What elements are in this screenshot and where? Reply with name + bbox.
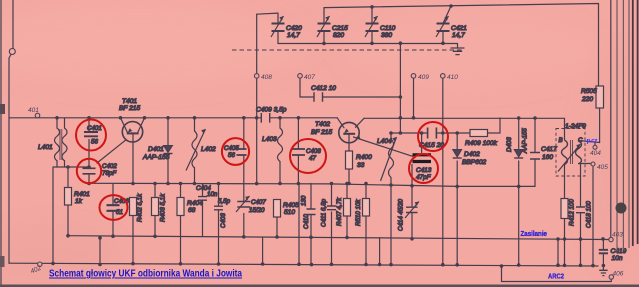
svg-text:406: 406 [613, 271, 624, 278]
capacitor C413 47pF (highlighted thick) [413, 155, 432, 181]
capacitor C404 10n [196, 185, 218, 200]
wire: R401 branch [67, 167, 69, 236]
wire: C408 branch [297, 118, 300, 264]
wire: R505 lower lead to p.cz node [599, 109, 601, 143]
capacitor C411 6,8p [321, 198, 337, 227]
svg-text:78pF: 78pF [102, 170, 117, 177]
svg-text:14,7: 14,7 [452, 32, 465, 39]
svg-text:403: 403 [612, 232, 623, 239]
svg-text:R402 5,1k: R402 5,1k [137, 193, 144, 222]
svg-text:R510 10k: R510 10k [355, 199, 362, 226]
wire: 407 terminal drop and C412 line [300, 78, 400, 97]
svg-text:R412 100: R412 100 [569, 199, 576, 226]
svg-text:C412 10: C412 10 [311, 85, 336, 92]
capacitor C419 10n [599, 248, 627, 262]
wire: C405/C407 branch [243, 118, 245, 237]
svg-text:407: 407 [304, 74, 315, 81]
wire: R409 to supply [488, 118, 501, 133]
wire: C410 branch [310, 184, 312, 265]
svg-text:130: 130 [301, 195, 308, 206]
terminal 408 [254, 74, 259, 79]
wire: L403 branch [279, 118, 281, 184]
svg-text:404: 404 [590, 150, 601, 157]
capacitor C403 5,5p [214, 198, 231, 228]
svg-text:C409 3,5p: C409 3,5p [256, 107, 287, 114]
transformer 1-24F9 [556, 123, 586, 176]
svg-text:B: B [559, 137, 563, 144]
resistor R405 510 [274, 200, 300, 218]
svg-text:510: 510 [284, 209, 295, 216]
svg-text:p.cz: p.cz [587, 138, 599, 145]
wire: C413/C414 vertical [412, 133, 422, 239]
diode D402 BBP602 [453, 150, 487, 167]
svg-text:C402: C402 [102, 163, 117, 170]
ground (tuning caps) [451, 48, 465, 55]
terminal 403 [609, 237, 613, 241]
junction dots on ground bus and supply line [51, 262, 55, 266]
highlight ring C415 [418, 122, 448, 151]
capacitor C421 14,7 (variable) [436, 16, 467, 39]
svg-text:401: 401 [28, 107, 39, 114]
node: antenna loop connector [9, 49, 15, 55]
svg-text:56: 56 [228, 152, 235, 159]
svg-text:R400: R400 [356, 154, 372, 161]
capacitor C418 100 [576, 201, 593, 228]
wire: R403 branch [154, 184, 156, 237]
svg-text:C420: C420 [286, 25, 302, 32]
wire: T401 emitter diagonal to C402 node [97, 140, 126, 163]
inductor L402 (variable) [186, 129, 216, 171]
svg-text:C408: C408 [306, 148, 321, 155]
wire: 405 to bus [592, 166, 594, 266]
wire: C403 branch [218, 184, 220, 264]
svg-text:Schemat głowicy UKF odbiornika: Schemat głowicy UKF odbiornika Wanda i J… [49, 269, 242, 280]
capacitor C110 380 (variable) [365, 16, 396, 39]
svg-text:R403 5,1k: R403 5,1k [160, 193, 167, 222]
svg-text:BBP602: BBP602 [462, 159, 487, 166]
highlight ring C408 [290, 139, 326, 173]
svg-text:C414 45/20: C414 45/20 [398, 198, 405, 231]
terminal 407 [298, 74, 303, 79]
svg-text:D401: D401 [148, 146, 164, 153]
junction dots on emitter/lower nets [87, 165, 91, 169]
wire: R402 branch [132, 216, 134, 264]
svg-text:220: 220 [581, 96, 593, 103]
svg-text:C: C [578, 137, 583, 144]
terminal 402 [38, 262, 42, 266]
wire: stub x=379.6 [379, 238, 381, 265]
svg-text:D402: D402 [464, 151, 480, 158]
svg-text:408: 408 [261, 74, 272, 81]
highlight ring C406 [100, 195, 128, 220]
inductor L404 (variable) [377, 137, 397, 181]
svg-text:C401: C401 [87, 125, 102, 132]
resistor R510 10k [355, 199, 370, 227]
svg-text:R407 4,7k: R407 4,7k [336, 197, 343, 226]
wire: C417 branch [534, 118, 536, 152]
wire: C110 leads [371, 7, 373, 44]
capacitor C402 78pF [83, 163, 118, 177]
ground (C419) [599, 270, 607, 275]
wire: L404 branch to bus [390, 133, 392, 264]
resistor R407 4,7k [336, 197, 351, 226]
wire: stub x=558 [557, 239, 559, 265]
svg-text:10n: 10n [612, 255, 623, 262]
resistor R403 5,1k [152, 193, 167, 222]
svg-text:C417: C417 [541, 146, 557, 153]
capacitor C417 160 [530, 146, 557, 161]
capacitor C415 20 (series) [419, 128, 444, 150]
wire: T402 base feed diagonal [338, 118, 345, 128]
svg-text:L402: L402 [201, 146, 216, 153]
wire: transformer primary bottom to R412 [564, 165, 566, 266]
svg-text:C421: C421 [451, 25, 467, 32]
svg-text:47: 47 [309, 155, 316, 162]
wire: T401 lead down [132, 134, 134, 184]
wire: output tank y=133 [391, 132, 470, 134]
svg-text:L404: L404 [377, 138, 392, 145]
resistor R409 100k [465, 130, 498, 148]
svg-text:15/20: 15/20 [249, 207, 265, 214]
wire: R404 branch [180, 184, 182, 264]
svg-text:405: 405 [597, 164, 608, 171]
wire: ARC2 line [502, 266, 612, 282]
svg-text:BF 215: BF 215 [311, 129, 332, 136]
svg-text:820: 820 [333, 32, 344, 39]
wire: oscillator feed vertical x=400 [399, 43, 401, 133]
terminal 405 [591, 162, 595, 166]
wire: 403 feed from top [610, 0, 612, 237]
wire: R407 branch [346, 184, 348, 238]
capacitor C405 56 [224, 145, 247, 159]
wire: C419 branch [602, 239, 604, 269]
terminal 410 [441, 74, 446, 79]
wire: ground bus [9, 263, 598, 266]
svg-text:C407: C407 [251, 199, 266, 206]
wire: C420 leads [277, 13, 279, 43]
wire: C406 branch [112, 184, 114, 237]
wire: R405 branch [276, 200, 278, 238]
svg-text:56: 56 [91, 139, 98, 146]
capacitor C410 130 [301, 195, 316, 229]
svg-text:68: 68 [188, 207, 196, 214]
svg-text:AAP-155: AAP-155 [142, 154, 170, 161]
svg-text:1k: 1k [75, 198, 83, 205]
diode D401 AAP-155 [142, 146, 173, 162]
svg-text:47pF: 47pF [416, 174, 432, 181]
svg-text:51: 51 [116, 209, 123, 216]
wire: secondary bottom to 405 [579, 163, 592, 165]
svg-text:5,5p: 5,5p [218, 198, 231, 205]
capacitor C414 45/20 (trimmer) [398, 198, 420, 231]
svg-text:409: 409 [418, 74, 429, 81]
resistor R401 1k [65, 188, 91, 206]
capacitor C401 56 [84, 125, 102, 146]
wire: C421 leads [443, 6, 451, 44]
wire: link 408-line to C420 top [257, 13, 278, 14]
wire: 410 terminal drop [442, 78, 444, 265]
svg-text:T401: T401 [122, 98, 137, 105]
capacitor C406 51 [107, 198, 130, 216]
svg-text:R505: R505 [581, 88, 597, 95]
svg-text:14,7: 14,7 [287, 32, 300, 39]
svg-text:C405: C405 [224, 145, 239, 152]
wire: terminal 408 drop [256, 14, 258, 183]
wire: T402 collector diagonal [356, 118, 365, 127]
wire: T401 collector lead [138, 118, 145, 133]
capacitor C407 15/20 (trimmer) [236, 196, 266, 214]
svg-text:380: 380 [381, 32, 392, 39]
svg-text:R405: R405 [283, 202, 299, 209]
svg-text:C411 6,8p: C411 6,8p [321, 198, 328, 227]
svg-text:410: 410 [447, 74, 458, 81]
capacitor C412 10 (series) [311, 85, 336, 102]
highlight ring C401 [76, 120, 106, 151]
wire: C404 branch [202, 184, 204, 237]
resistor R402 5,1k [130, 193, 144, 222]
svg-text:D403: D403 [506, 137, 513, 152]
terminal 406 [609, 275, 613, 279]
svg-text:Zasilanie: Zasilanie [521, 229, 548, 238]
wire: R510 branch [365, 184, 367, 265]
wire: D401 branch [167, 118, 169, 184]
svg-text:33: 33 [357, 162, 365, 169]
resistor R400 33 [346, 151, 373, 169]
highlight ring C405 [222, 138, 249, 165]
svg-text:R401: R401 [74, 191, 90, 198]
svg-text:10n: 10n [207, 191, 218, 198]
wire: antenna lead top [12, 0, 14, 48]
wire: left vertical to ground bus [9, 55, 11, 264]
wire: T401 base feed lead [121, 118, 128, 133]
wire: supply line (Zasilanie) [68, 236, 609, 240]
terminal 401 [35, 113, 40, 118]
svg-text:C403: C403 [220, 213, 227, 228]
terminal 409 [411, 74, 416, 79]
svg-text:R409 100k: R409 100k [465, 140, 498, 147]
wire: terminal 404 stub [594, 143, 596, 145]
svg-text:L401: L401 [38, 144, 53, 151]
svg-text:AAP-155: AAP-155 [522, 128, 529, 154]
svg-text:ARC2: ARC2 [548, 272, 564, 281]
wire: C418 branch [580, 165, 582, 266]
resistor R505 220 [581, 86, 604, 108]
inductor L401 (antenna coil) [38, 128, 67, 161]
svg-text:C410: C410 [303, 214, 310, 229]
svg-text:C418 100: C418 100 [586, 201, 593, 228]
capacitor C409 3,5p (series) [256, 107, 287, 123]
svg-text:T402: T402 [315, 121, 330, 128]
wire: 409 terminal drop [413, 78, 415, 118]
capacitor C408 47 [292, 148, 321, 162]
wire: C215 leads [323, 8, 325, 44]
capacitor C420 14,7 (variable) [271, 16, 302, 39]
capacitor C215 820 (variable) [317, 16, 348, 39]
svg-text:C419: C419 [611, 248, 627, 255]
wire: emitter net y=183.5 [89, 183, 457, 186]
resistor R412 100 [561, 199, 576, 227]
resistor R404 68 [177, 198, 203, 216]
svg-text:1-24F9: 1-24F9 [565, 123, 586, 130]
wire: T402 emitter diagonal to C413 [354, 137, 413, 156]
wire: y167 link under L401 [53, 167, 89, 263]
terminal 404 [593, 145, 597, 149]
svg-text:C110: C110 [380, 25, 396, 32]
wire: top bus to R505 [324, 4, 599, 87]
svg-text:C215: C215 [332, 25, 348, 32]
svg-text:R404: R404 [187, 200, 203, 207]
diode D403 AAP-155 [506, 128, 529, 158]
wire: L401 leads [57, 118, 65, 167]
wire: C401/C402 vertical [88, 118, 90, 184]
highlight ring C413 [409, 154, 438, 183]
svg-text:BF 215: BF 215 [119, 105, 140, 112]
wire: stub at x=262.6 [262, 237, 264, 264]
svg-text:L403: L403 [262, 136, 277, 143]
wire: T402 lead down / R400 [348, 134, 350, 184]
svg-text:C413: C413 [416, 167, 432, 174]
wire: bottom link D402 to C417 [457, 160, 535, 187]
wire: tuning caps common top [278, 44, 458, 49]
wire: D402 branch [456, 133, 458, 265]
wire: p.cz output [579, 141, 600, 143]
junction dots on main horizontal bus [55, 116, 59, 120]
wire: C411 branch [331, 184, 333, 265]
wire: L402 branch [194, 118, 196, 184]
transistor T401 BF215 [119, 98, 143, 142]
wire: D403 branch [518, 118, 520, 265]
svg-text:160: 160 [542, 154, 553, 161]
dashed tuning gang line [232, 49, 463, 51]
wire: main top horizontal bus y=118 [9, 118, 565, 140]
inductor L403 [262, 128, 283, 161]
wire: stub x=100 supply to bus [99, 238, 101, 265]
highlight ring C402 [77, 159, 101, 183]
transistor T402 BF215 [311, 121, 361, 143]
